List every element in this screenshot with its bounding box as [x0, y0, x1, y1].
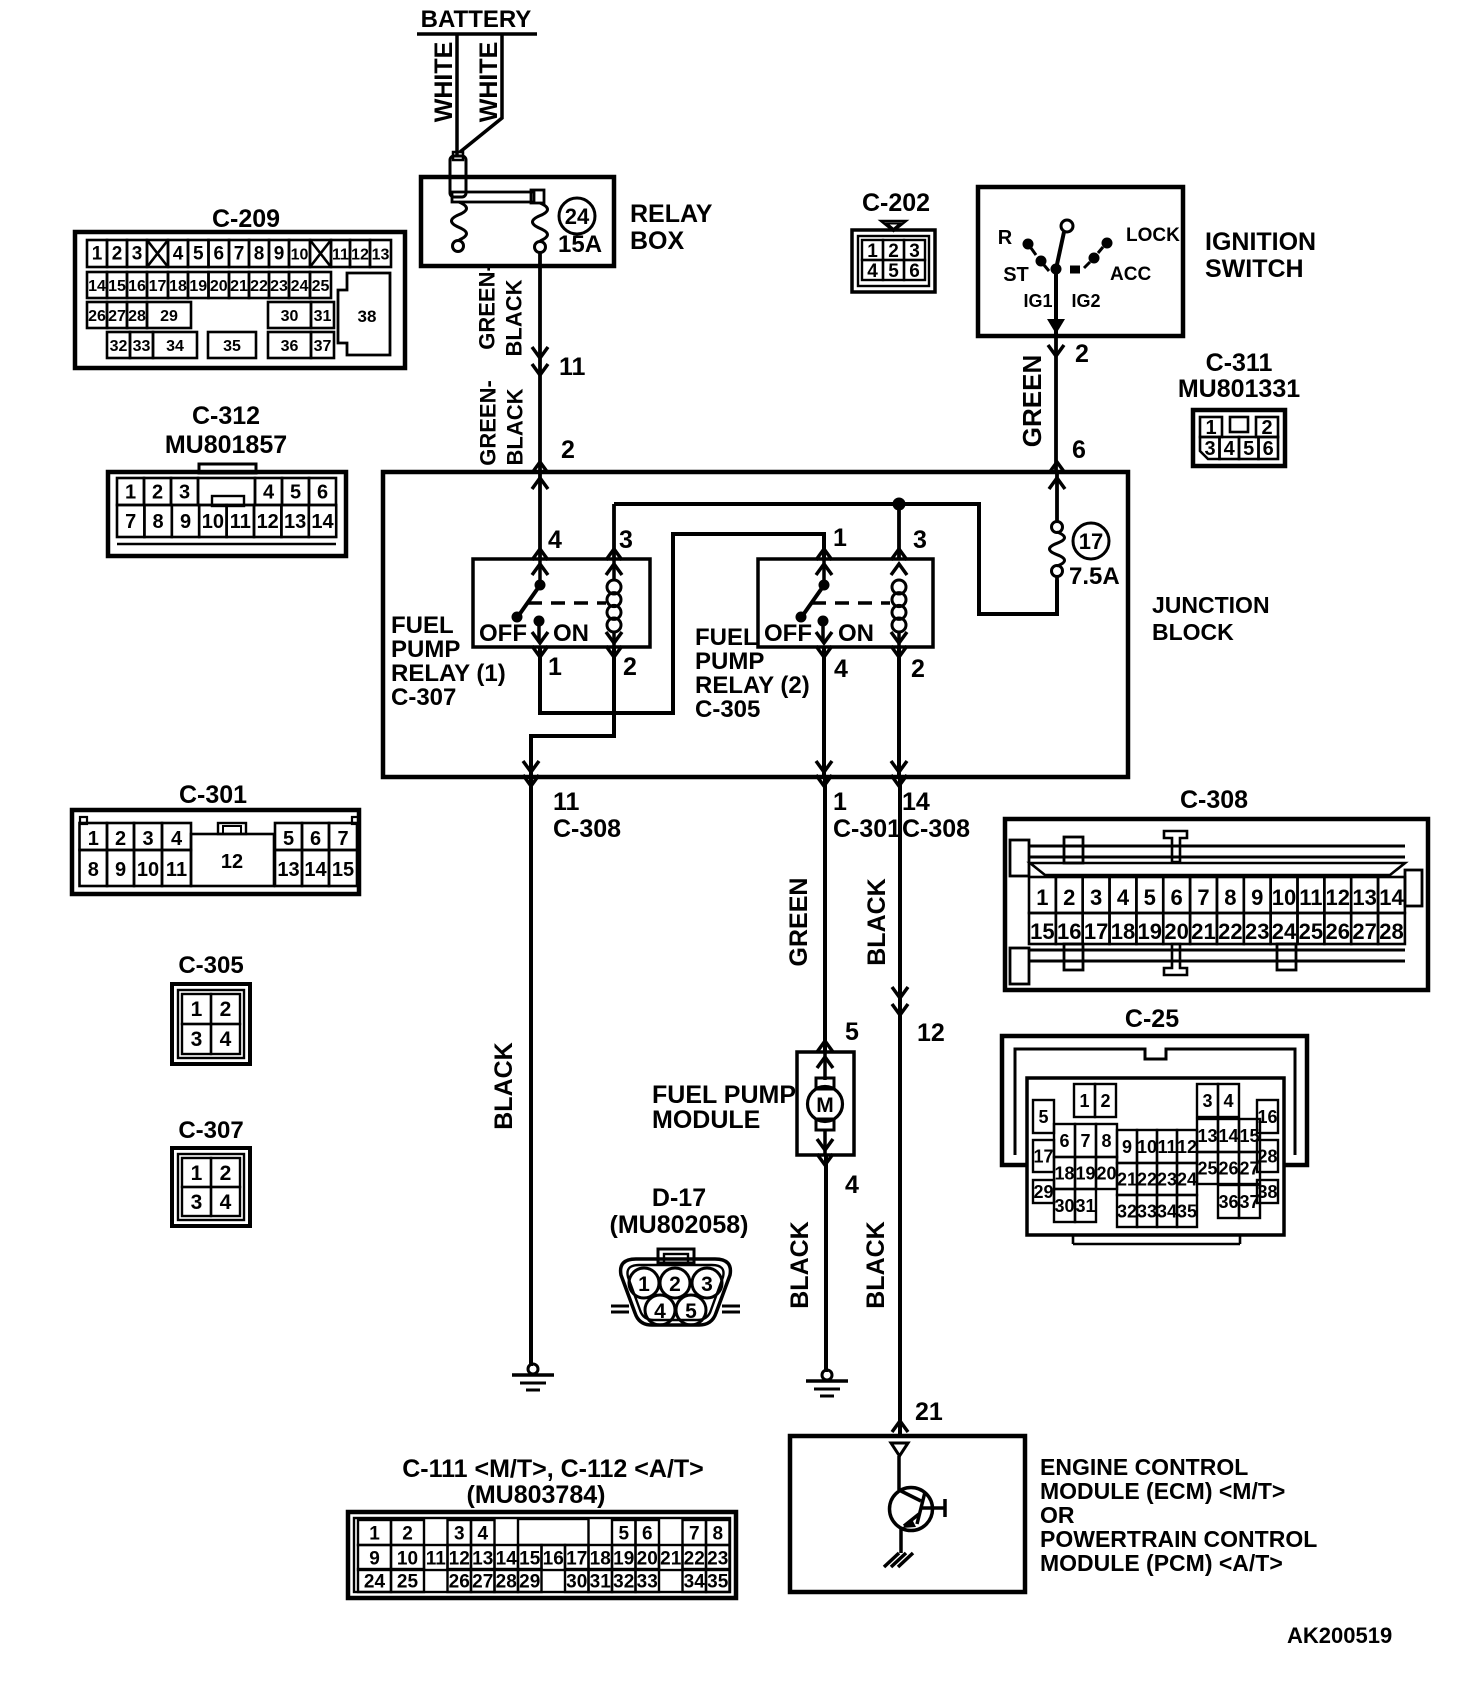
- svg-text:3: 3: [701, 1273, 713, 1296]
- svg-text:BLACK: BLACK: [503, 388, 528, 465]
- svg-text:11: 11: [426, 1548, 447, 1569]
- relay1 actuation dashed link: [528, 601, 606, 605]
- svg-text:30: 30: [281, 308, 299, 325]
- svg-text:6: 6: [213, 244, 224, 265]
- svg-text:4: 4: [834, 655, 848, 683]
- svg-text:2: 2: [561, 436, 575, 464]
- svg-text:BLACK: BLACK: [490, 1042, 518, 1130]
- svg-text:18: 18: [590, 1548, 611, 1569]
- junction block entry arrows x=540: [532, 462, 548, 489]
- svg-text:BOX: BOX: [630, 227, 685, 255]
- svg-text:2: 2: [911, 655, 925, 683]
- svg-text:5: 5: [618, 1523, 629, 1544]
- svg-text:3: 3: [142, 828, 153, 850]
- svg-text:2: 2: [152, 482, 163, 504]
- svg-text:25: 25: [1299, 919, 1323, 944]
- svg-text:24: 24: [565, 204, 590, 229]
- svg-text:15: 15: [332, 859, 354, 881]
- svg-text:17: 17: [566, 1548, 587, 1569]
- svg-text:25: 25: [397, 1571, 419, 1592]
- svg-text:C-311: C-311: [1206, 349, 1273, 377]
- relay1 coil: [607, 559, 621, 647]
- svg-text:MU801857: MU801857: [165, 431, 287, 459]
- wire: junction 11 to ground (BLACK): [529, 777, 533, 1366]
- svg-text:15: 15: [519, 1548, 541, 1569]
- relay2 switch: [796, 559, 830, 640]
- svg-text:BLACK: BLACK: [502, 279, 527, 356]
- svg-text:22: 22: [250, 278, 268, 295]
- svg-text:14: 14: [304, 859, 327, 881]
- svg-text:6: 6: [310, 828, 321, 850]
- svg-text:1: 1: [1079, 1091, 1089, 1111]
- svg-text:3: 3: [191, 1191, 203, 1214]
- svg-text:RELAY: RELAY: [630, 200, 713, 228]
- fuel pump relay (1) C-307 box: [473, 559, 650, 647]
- svg-text:4: 4: [548, 526, 562, 554]
- fuel pump module box: [797, 1052, 854, 1155]
- svg-text:5: 5: [193, 244, 204, 265]
- svg-text:9: 9: [115, 859, 126, 881]
- svg-text:27: 27: [1352, 919, 1376, 944]
- svg-text:6: 6: [1263, 438, 1274, 460]
- svg-text:8: 8: [88, 859, 99, 881]
- svg-text:9: 9: [369, 1548, 380, 1569]
- relay box: [421, 177, 614, 266]
- svg-text:12: 12: [1177, 1137, 1197, 1157]
- svg-text:1: 1: [92, 244, 103, 265]
- svg-text:PUMP: PUMP: [695, 648, 764, 675]
- svg-text:35: 35: [223, 338, 241, 355]
- svg-text:2: 2: [220, 998, 232, 1021]
- svg-text:21: 21: [1191, 919, 1215, 944]
- svg-text:ON: ON: [553, 620, 589, 647]
- connector C-308: [1005, 786, 1428, 990]
- svg-text:POWERTRAIN CONTROL: POWERTRAIN CONTROL: [1040, 1526, 1317, 1552]
- wire: battery feed 2 (WHITE): [460, 34, 502, 152]
- svg-text:RELAY (1): RELAY (1): [391, 660, 506, 687]
- svg-text:13: 13: [472, 1548, 493, 1569]
- svg-text:29: 29: [1033, 1182, 1053, 1202]
- svg-text:C-305: C-305: [695, 696, 760, 723]
- svg-text:4: 4: [263, 482, 275, 504]
- svg-text:37: 37: [314, 338, 332, 355]
- svg-text:C-307: C-307: [178, 1117, 243, 1144]
- svg-text:32: 32: [1117, 1201, 1137, 1221]
- svg-text:2: 2: [669, 1273, 681, 1296]
- svg-text:23: 23: [707, 1548, 728, 1569]
- ECM label: [1040, 1454, 1317, 1576]
- svg-text:GREEN-: GREEN-: [475, 264, 500, 350]
- svg-text:FUEL: FUEL: [695, 624, 758, 651]
- svg-text:2: 2: [220, 1162, 232, 1185]
- svg-text:JUNCTION: JUNCTION: [1152, 592, 1270, 618]
- svg-text:7: 7: [689, 1523, 700, 1544]
- svg-text:4: 4: [1224, 438, 1236, 460]
- ECM internal ground: [884, 1553, 913, 1567]
- svg-text:11: 11: [1157, 1137, 1176, 1157]
- svg-text:5: 5: [290, 482, 301, 504]
- svg-text:1: 1: [125, 482, 136, 504]
- svg-text:21: 21: [1117, 1169, 1137, 1189]
- svg-text:2: 2: [1100, 1091, 1110, 1111]
- svg-text:4: 4: [867, 261, 878, 282]
- svg-text:10: 10: [1137, 1137, 1157, 1157]
- svg-text:8: 8: [153, 511, 164, 533]
- svg-text:33: 33: [1137, 1201, 1157, 1221]
- terminal labels 14 / C-308: [902, 788, 970, 843]
- bus bar in relay box: [452, 190, 544, 203]
- svg-text:13: 13: [277, 859, 299, 881]
- svg-text:5: 5: [1144, 885, 1156, 910]
- svg-text:7: 7: [337, 828, 348, 850]
- svg-text:2: 2: [1063, 885, 1075, 910]
- svg-text:22: 22: [684, 1548, 705, 1569]
- svg-text:FUEL: FUEL: [391, 612, 454, 639]
- svg-text:3: 3: [132, 244, 143, 265]
- svg-text:PUMP: PUMP: [391, 636, 460, 663]
- svg-text:12: 12: [449, 1548, 470, 1569]
- svg-text:14: 14: [1218, 1126, 1238, 1146]
- svg-text:15: 15: [108, 278, 126, 295]
- svg-text:11: 11: [166, 859, 187, 881]
- svg-text:4: 4: [220, 1191, 232, 1214]
- svg-text:3: 3: [454, 1523, 465, 1544]
- svg-text:LOCK: LOCK: [1126, 225, 1180, 246]
- svg-text:28: 28: [1379, 919, 1403, 944]
- svg-text:SWITCH: SWITCH: [1205, 255, 1304, 283]
- svg-text:BLACK: BLACK: [786, 1221, 814, 1309]
- engine control module box: [790, 1436, 1025, 1592]
- svg-text:6: 6: [1072, 436, 1086, 464]
- svg-text:16: 16: [1057, 919, 1081, 944]
- svg-text:9: 9: [180, 511, 191, 533]
- svg-text:20: 20: [210, 278, 228, 295]
- svg-text:C-312: C-312: [192, 402, 260, 430]
- fuse element left: [452, 202, 467, 252]
- junction node on bus: [893, 498, 906, 511]
- svg-text:19: 19: [1138, 919, 1162, 944]
- svg-text:27: 27: [472, 1571, 493, 1592]
- ECM input triangle terminal: [891, 1443, 908, 1456]
- svg-text:1: 1: [369, 1523, 380, 1544]
- svg-text:5: 5: [283, 828, 294, 850]
- svg-text:12: 12: [1326, 885, 1350, 910]
- svg-text:WHITE: WHITE: [430, 42, 458, 123]
- svg-text:16: 16: [128, 278, 146, 295]
- svg-text:ENGINE CONTROL: ENGINE CONTROL: [1040, 1454, 1248, 1480]
- svg-text:MU801331: MU801331: [1178, 375, 1300, 403]
- svg-text:24: 24: [1177, 1169, 1197, 1189]
- ignition switch output wire: [1047, 274, 1065, 356]
- svg-text:D-17: D-17: [652, 1184, 706, 1212]
- svg-text:24: 24: [364, 1571, 386, 1592]
- relay2 OFF ON labels: [764, 620, 874, 647]
- svg-text:1: 1: [88, 828, 99, 850]
- svg-text:25: 25: [312, 278, 330, 295]
- svg-text:26: 26: [1218, 1158, 1238, 1178]
- svg-text:C-111 <M/T>, C-112 <A/T>: C-111 <M/T>, C-112 <A/T>: [402, 1455, 704, 1483]
- fuel pump relay (2) C-305 box: [758, 559, 933, 647]
- ignition switch contact LOCK: [1098, 238, 1113, 254]
- svg-text:C-301: C-301: [833, 815, 901, 843]
- svg-text:10: 10: [291, 247, 309, 264]
- connector C-301: [72, 781, 359, 894]
- junction block: [383, 472, 1128, 777]
- svg-text:5: 5: [1243, 438, 1254, 460]
- relay1 pin2 output arrows: [606, 632, 622, 657]
- ignition switch label: [1205, 228, 1316, 283]
- ignition switch rotor: [1051, 220, 1074, 275]
- svg-text:12: 12: [917, 1019, 945, 1047]
- svg-text:31: 31: [1075, 1196, 1095, 1216]
- svg-text:4: 4: [654, 1300, 666, 1323]
- svg-text:14: 14: [496, 1548, 518, 1569]
- svg-text:1: 1: [191, 998, 203, 1021]
- fuel pump module output arrows: [817, 1139, 833, 1165]
- connector C-209: [75, 205, 405, 368]
- svg-text:MODULE (PCM) <A/T>: MODULE (PCM) <A/T>: [1040, 1550, 1283, 1576]
- svg-text:IG1: IG1: [1023, 291, 1052, 311]
- wire: bus to relay2 pin 3: [891, 504, 907, 575]
- wire: junction 1 to fuel pump module (GREEN): [817, 777, 833, 1068]
- svg-text:36: 36: [281, 338, 299, 355]
- svg-text:14: 14: [1379, 885, 1404, 910]
- svg-text:6: 6: [1171, 885, 1183, 910]
- svg-text:2: 2: [112, 244, 123, 265]
- relay1 pin1 output arrows: [532, 632, 548, 657]
- svg-text:19: 19: [613, 1548, 634, 1569]
- svg-text:GREEN-: GREEN-: [476, 380, 501, 466]
- relay box label: [630, 200, 713, 255]
- fuse 17 (7.5A) in junction block: [1049, 462, 1065, 580]
- wire: ignition switch to junction block (GREEN): [1054, 336, 1058, 472]
- svg-text:IG2: IG2: [1071, 291, 1100, 311]
- junction block label: [1152, 592, 1270, 645]
- svg-text:14: 14: [902, 788, 930, 816]
- svg-text:8: 8: [712, 1523, 723, 1544]
- svg-text:31: 31: [590, 1571, 612, 1592]
- fusible link housing: [450, 152, 466, 197]
- svg-text:BLACK: BLACK: [863, 878, 891, 966]
- svg-text:29: 29: [160, 308, 178, 325]
- svg-text:18: 18: [169, 278, 187, 295]
- svg-text:1: 1: [1036, 885, 1048, 910]
- wire: fuel pump module to ground (BLACK): [824, 1155, 828, 1372]
- svg-text:33: 33: [133, 338, 151, 355]
- wire: junction entry to relay1 pin 4: [532, 472, 548, 575]
- svg-text:27: 27: [108, 308, 126, 325]
- svg-text:21: 21: [230, 278, 248, 295]
- svg-text:1: 1: [833, 524, 847, 552]
- svg-text:3: 3: [1090, 885, 1102, 910]
- relay2 actuation dashed link: [812, 601, 890, 605]
- svg-text:38: 38: [358, 307, 377, 326]
- svg-text:13: 13: [1352, 885, 1376, 910]
- svg-text:(MU803784): (MU803784): [467, 1481, 606, 1509]
- ECM entry arrow: [892, 1421, 908, 1432]
- ignition switch contact R: [1023, 239, 1037, 256]
- connector D-17 (MU802058): [610, 1184, 749, 1325]
- svg-text:24: 24: [1272, 919, 1297, 944]
- svg-text:OFF: OFF: [479, 620, 527, 647]
- svg-text:3: 3: [619, 526, 633, 554]
- connector C-305: [172, 952, 250, 1064]
- svg-text:11: 11: [559, 353, 586, 381]
- svg-text:4: 4: [171, 828, 183, 850]
- svg-text:36: 36: [1218, 1192, 1238, 1212]
- svg-text:BATTERY: BATTERY: [421, 6, 532, 33]
- svg-text:C-209: C-209: [212, 205, 280, 233]
- ground symbol left: [512, 1364, 554, 1390]
- ground symbol middle: [806, 1370, 848, 1396]
- svg-text:10: 10: [1272, 885, 1296, 910]
- svg-text:26: 26: [449, 1571, 470, 1592]
- svg-text:33: 33: [637, 1571, 658, 1592]
- svg-text:2: 2: [402, 1523, 413, 1544]
- svg-text:19: 19: [189, 278, 207, 295]
- svg-text:12: 12: [257, 511, 279, 533]
- svg-text:5: 5: [845, 1018, 859, 1046]
- wire: relay2 pin2 to junction output 14: [891, 647, 907, 786]
- svg-text:25: 25: [1197, 1158, 1217, 1178]
- svg-text:13: 13: [372, 247, 390, 264]
- relay1 switch: [512, 559, 546, 640]
- svg-text:29: 29: [519, 1571, 540, 1592]
- svg-text:20: 20: [1164, 919, 1188, 944]
- svg-text:26: 26: [1326, 919, 1350, 944]
- bus wire from fuse 17 to relay coils: [614, 504, 1057, 614]
- svg-text:31: 31: [314, 308, 332, 325]
- svg-text:34: 34: [1157, 1201, 1177, 1221]
- svg-text:5: 5: [685, 1300, 697, 1323]
- svg-text:23: 23: [270, 278, 288, 295]
- svg-text:4: 4: [220, 1028, 232, 1051]
- svg-text:18: 18: [1054, 1163, 1074, 1183]
- svg-text:27: 27: [1239, 1158, 1259, 1178]
- svg-text:IGNITION: IGNITION: [1205, 228, 1316, 256]
- svg-text:18: 18: [1111, 919, 1135, 944]
- svg-text:30: 30: [566, 1571, 587, 1592]
- svg-text:13: 13: [284, 511, 306, 533]
- svg-text:6: 6: [642, 1523, 653, 1544]
- svg-text:10: 10: [202, 511, 224, 533]
- svg-text:ACC: ACC: [1110, 264, 1151, 285]
- svg-text:12: 12: [351, 247, 369, 264]
- fuel pump module label: [652, 1081, 796, 1134]
- terminal labels 11 / C-308: [553, 788, 621, 843]
- svg-text:2: 2: [623, 653, 637, 681]
- svg-text:17: 17: [1033, 1146, 1053, 1166]
- svg-text:OR: OR: [1040, 1502, 1075, 1528]
- svg-text:7: 7: [1197, 885, 1209, 910]
- svg-text:7: 7: [1080, 1131, 1090, 1151]
- svg-text:GREEN: GREEN: [1017, 355, 1047, 447]
- svg-text:GREEN: GREEN: [785, 878, 813, 967]
- svg-text:OFF: OFF: [764, 620, 812, 647]
- svg-text:34: 34: [166, 338, 184, 355]
- svg-text:9: 9: [274, 244, 285, 265]
- connector C-111 <M/T>, C-112 <A/T> (MU803784): [348, 1455, 736, 1598]
- svg-text:1: 1: [638, 1273, 650, 1296]
- svg-text:10: 10: [397, 1548, 418, 1569]
- svg-text:AK200519: AK200519: [1287, 1623, 1392, 1648]
- svg-text:C-308: C-308: [553, 815, 621, 843]
- svg-text:9: 9: [1122, 1137, 1132, 1157]
- svg-text:1: 1: [548, 653, 562, 681]
- svg-text:3: 3: [1202, 1091, 1212, 1111]
- transistor Q1 in ECM: [890, 1456, 946, 1553]
- svg-text:7.5A: 7.5A: [1069, 563, 1120, 590]
- svg-text:FUEL PUMP: FUEL PUMP: [652, 1081, 796, 1109]
- svg-text:C-307: C-307: [391, 684, 456, 711]
- relay1 label: [391, 612, 506, 711]
- svg-text:13: 13: [1197, 1126, 1217, 1146]
- svg-text:26: 26: [88, 308, 106, 325]
- svg-text:3: 3: [913, 526, 927, 554]
- terminal labels 1 / C-301: [833, 788, 901, 843]
- connector C-311 (MU801331): [1178, 349, 1300, 466]
- svg-text:WHITE: WHITE: [475, 42, 503, 123]
- svg-text:17: 17: [1084, 919, 1108, 944]
- ignition switch: [978, 187, 1183, 336]
- svg-text:4: 4: [845, 1171, 859, 1199]
- svg-text:MODULE (ECM) <M/T>: MODULE (ECM) <M/T>: [1040, 1478, 1285, 1504]
- svg-text:17: 17: [1079, 529, 1103, 554]
- svg-text:35: 35: [1177, 1201, 1197, 1221]
- svg-text:6: 6: [909, 261, 920, 282]
- svg-text:RELAY (2): RELAY (2): [695, 672, 810, 699]
- svg-text:34: 34: [684, 1571, 706, 1592]
- svg-text:20: 20: [637, 1548, 658, 1569]
- wire color label GREEN-BLACK lower: [476, 380, 528, 466]
- svg-text:11: 11: [553, 788, 580, 816]
- svg-text:28: 28: [496, 1571, 517, 1592]
- svg-text:3: 3: [179, 482, 190, 504]
- svg-text:15: 15: [1030, 919, 1054, 944]
- svg-text:C-308: C-308: [1180, 786, 1248, 814]
- battery BATTERY supply: [417, 6, 537, 34]
- svg-text:7: 7: [234, 244, 245, 265]
- svg-text:4: 4: [1117, 885, 1130, 910]
- svg-text:15A: 15A: [558, 231, 602, 258]
- svg-text:1: 1: [191, 1162, 203, 1185]
- svg-text:11: 11: [1299, 885, 1322, 910]
- svg-text:19: 19: [1075, 1163, 1095, 1183]
- svg-text:3: 3: [191, 1028, 203, 1051]
- wire: battery feed 1 (WHITE): [455, 34, 459, 155]
- relay2 pin2 output arrows: [891, 632, 907, 657]
- connector C-312 (MU801857): [108, 402, 346, 556]
- svg-text:C-308: C-308: [902, 815, 970, 843]
- relay2 label: [695, 624, 810, 723]
- svg-text:3: 3: [1204, 438, 1215, 460]
- svg-text:14: 14: [311, 511, 334, 533]
- svg-text:20: 20: [1096, 1163, 1116, 1183]
- svg-text:11: 11: [332, 247, 349, 264]
- svg-text:4: 4: [477, 1523, 488, 1544]
- ignition switch contact IG2: [1070, 266, 1080, 274]
- relay1 OFF ON labels: [479, 620, 589, 647]
- svg-text:23: 23: [1157, 1169, 1177, 1189]
- svg-text:16: 16: [543, 1548, 564, 1569]
- svg-text:4: 4: [173, 244, 184, 265]
- relay2 pin4 output arrows: [816, 632, 832, 657]
- svg-text:22: 22: [1218, 919, 1242, 944]
- svg-text:32: 32: [613, 1571, 634, 1592]
- svg-text:(MU802058): (MU802058): [610, 1211, 749, 1239]
- connector C-307: [172, 1117, 250, 1226]
- svg-text:C-301: C-301: [179, 781, 247, 809]
